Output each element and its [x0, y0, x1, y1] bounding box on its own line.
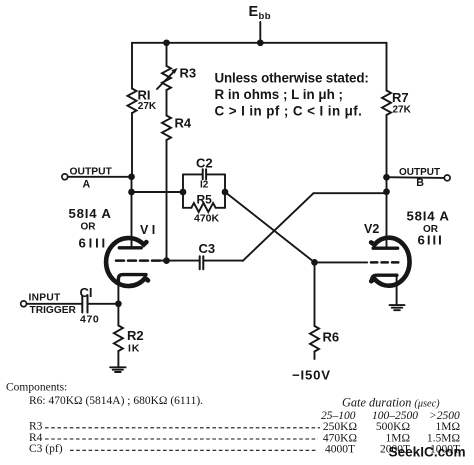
svg-text:R6: 470KΩ (5814A) ; 680KΩ: R6: 470KΩ (5814A) ; 680KΩ (6111). [29, 395, 203, 407]
wire input to C1 [27, 303, 83, 305]
label R7 [392, 90, 409, 105]
svg-text:470K: 470K [194, 213, 220, 225]
ground (R2) [110, 366, 125, 368]
wire top supply bus [132, 42, 387, 44]
arrow of variable resistor R3 [157, 71, 174, 89]
label R1 [138, 88, 151, 103]
leader C3 [70, 449, 318, 451]
label C3 [199, 241, 216, 256]
wire output B node to plate node V2 [386, 177, 388, 193]
wire output B [387, 176, 445, 179]
V1 grid (dashed) [116, 259, 160, 262]
svg-text:TRIGGER: TRIGGER [30, 305, 77, 316]
wire R1 to output A node [131, 113, 133, 177]
capacitor C1 [81, 296, 83, 313]
V1 plate bar [119, 246, 141, 249]
label tube type left [69, 206, 112, 251]
wire diagonal C3 to V2 plate node [243, 193, 314, 261]
svg-text:OR: OR [81, 222, 97, 233]
svg-text:Unless otherwise stated:: Unless otherwise stated: [215, 71, 369, 86]
wire V1 grid to node [160, 260, 167, 262]
svg-text:B: B [416, 177, 424, 189]
V2 cathode [371, 275, 397, 280]
svg-text:R3: R3 [29, 421, 43, 433]
wire R7 to output B [386, 115, 388, 177]
svg-text:E: E [249, 4, 259, 20]
note: unless otherwise stated [215, 71, 369, 119]
wire R2 to ground [117, 351, 119, 367]
svg-text:6III: 6III [418, 233, 444, 248]
svg-text:58I4 A: 58I4 A [69, 206, 112, 221]
power label Ebb [249, 4, 272, 22]
junction dot output A / plate V1 [128, 173, 135, 180]
svg-text:C3 (pf): C3 (pf) [29, 443, 63, 455]
svg-text:58I4 A: 58I4 A [407, 209, 450, 224]
terminal INPUT TRIGGER [21, 301, 27, 307]
svg-text:C > I in pf ; C < I in μf.: C > I in pf ; C < I in μf. [215, 104, 363, 119]
label INPUT TRIGGER [29, 292, 77, 316]
svg-text:27K: 27K [138, 101, 157, 112]
svg-text:R3: R3 [180, 66, 197, 81]
resistor R3 (variable) [162, 66, 171, 90]
terminal OUTPUT B [444, 175, 450, 181]
wire bus to R3 [166, 43, 168, 66]
label R2 [127, 328, 144, 343]
svg-text:OUTPUT: OUTPUT [399, 167, 440, 178]
label R4 [175, 116, 192, 131]
junction dot plate node V2 [383, 188, 390, 195]
svg-text:V I: V I [140, 223, 155, 237]
svg-text:R6: R6 [323, 330, 340, 345]
label R5 value 470K [194, 213, 220, 225]
label tube type right [407, 209, 450, 248]
wire R6 to -150V [314, 352, 316, 360]
wire R3 to R4 [166, 90, 168, 116]
svg-text:470: 470 [80, 313, 99, 325]
wire box right vertical [224, 174, 226, 207]
svg-text:Gate duration (μsec): Gate duration (μsec) [342, 396, 440, 410]
wire C1 to cathode node [88, 303, 119, 305]
terminal OUTPUT A [62, 174, 68, 180]
svg-text:R4: R4 [175, 116, 192, 131]
svg-text:R2: R2 [127, 328, 144, 343]
label C1 [80, 285, 93, 300]
svg-text:Components:: Components: [6, 382, 67, 394]
svg-text:6III: 6III [79, 236, 109, 251]
resistor R4 [162, 116, 171, 140]
wire box left vertical [182, 174, 184, 207]
label -150V [292, 368, 331, 383]
label OUTPUT B [399, 167, 440, 189]
junction dot V2 grid node [311, 259, 318, 266]
svg-text:1MΩ: 1MΩ [385, 432, 410, 444]
wire grid node to C3 [167, 260, 200, 262]
resistor R1 [128, 89, 137, 114]
label V1 [140, 223, 155, 237]
wire Ebb lead [259, 22, 261, 43]
svg-text:R in ohms ; L in μh ;: R in ohms ; L in μh ; [215, 87, 343, 102]
resistor R6 [310, 326, 319, 352]
svg-text:100–2500: 100–2500 [372, 410, 418, 422]
label R6 [323, 330, 340, 345]
resistor R5 [183, 207, 192, 209]
V2 plate bar [373, 246, 397, 249]
ground (V2) [390, 304, 405, 306]
label OUTPUT A [70, 166, 113, 190]
svg-text:500KΩ: 500KΩ [376, 421, 410, 433]
svg-text:OUTPUT: OUTPUT [70, 166, 113, 177]
svg-text:SeekIC.com: SeekIC.com [389, 445, 466, 460]
leader R4 [45, 438, 318, 440]
junction dot bus/Ebb [257, 39, 264, 46]
wire output A [68, 176, 132, 178]
label V2 [364, 222, 379, 236]
junction dot box right [222, 189, 229, 196]
label C1 value 470 [80, 313, 99, 325]
svg-text:25–100: 25–100 [321, 410, 356, 422]
svg-text:C3: C3 [199, 241, 216, 256]
svg-text:I2: I2 [200, 180, 209, 191]
wire diagonal box to V2 grid [225, 192, 315, 262]
wire plate node to C2/R5 box [132, 191, 184, 193]
wire V2 plate node horizontal [314, 192, 387, 194]
label R5 [197, 193, 213, 207]
wire bus to R1 [131, 43, 133, 89]
junction dot bus/R3 [163, 39, 170, 46]
svg-text:−I50V: −I50V [292, 368, 331, 383]
junction dot cathode node V1 [115, 300, 122, 307]
junction dot plate node V1 [128, 189, 135, 196]
capacitor C3 [199, 256, 201, 269]
V1 cathode [118, 275, 146, 282]
svg-text:R4: R4 [29, 432, 43, 444]
junction dot output B [383, 174, 390, 181]
svg-text:C2: C2 [196, 156, 213, 171]
tube V1 envelope [106, 238, 148, 286]
junction dot box left [180, 189, 187, 196]
label R3 [180, 66, 197, 81]
svg-text:470KΩ: 470KΩ [323, 432, 357, 444]
wire R4 to grid node of V1 [166, 140, 168, 261]
svg-text:1.5MΩ: 1.5MΩ [427, 432, 460, 444]
svg-text:250KΩ: 250KΩ [323, 421, 357, 433]
svg-text:V2: V2 [364, 222, 379, 236]
wire bus to R7 [386, 43, 388, 91]
wire node to R2 [117, 304, 119, 326]
leader R3 [45, 427, 320, 429]
svg-text:>2500: >2500 [429, 410, 460, 422]
svg-text:4000T: 4000T [325, 444, 355, 456]
junction dot V1 grid node [163, 257, 170, 264]
label R1 value 27K [138, 101, 157, 112]
wire output A node down to coupling node [131, 177, 133, 192]
svg-text:1MΩ: 1MΩ [435, 421, 460, 433]
svg-text:IK: IK [128, 342, 140, 354]
svg-text:INPUT: INPUT [29, 292, 62, 303]
label C2 [196, 156, 213, 171]
label C2 value 12 [200, 180, 209, 191]
svg-text:27K: 27K [393, 105, 412, 116]
wire grid node V2 to R6 [314, 262, 316, 326]
wire V1 plate lead [131, 192, 133, 246]
V2 grid (dashed) [371, 261, 398, 264]
wire V1 cathode lead [117, 281, 119, 304]
svg-text:R7: R7 [392, 90, 409, 105]
wire V2 grid node to tube [315, 261, 368, 263]
svg-text:R5: R5 [197, 193, 213, 207]
svg-text:A: A [83, 178, 91, 190]
resistor R2 [114, 326, 123, 352]
wire V2 cathode lead [396, 275, 398, 305]
wire C3 to diagonal [204, 260, 243, 262]
svg-text:CI: CI [80, 285, 93, 300]
label R2 value 1K [128, 342, 140, 354]
label R7 value 27K [393, 105, 412, 116]
tube V2 envelope [371, 238, 409, 286]
wire V2 plate lead [386, 193, 388, 246]
resistor R7 [382, 91, 391, 116]
capacitor C2 [183, 173, 202, 175]
svg-text:bb: bb [259, 11, 272, 22]
